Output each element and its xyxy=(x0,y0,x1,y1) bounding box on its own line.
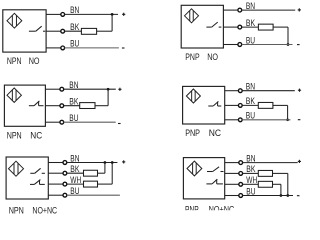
wire BU D5 to supply xyxy=(67,194,120,196)
svg-text:BN: BN xyxy=(246,153,255,163)
svg-text:NO+NC: NO+NC xyxy=(32,206,57,216)
wire WH D5 to load xyxy=(67,183,84,185)
proximity symbol U3 xyxy=(7,88,21,102)
terminal BK D3 xyxy=(60,104,64,108)
svg-text:BK: BK xyxy=(70,164,80,174)
plus terminal D1 xyxy=(122,13,125,16)
sensor body U4 xyxy=(183,86,225,124)
diagram D1 NPN NO xyxy=(3,5,126,66)
wire BN D6 to supply xyxy=(243,162,298,164)
junction D3 xyxy=(107,88,110,91)
terminal BK D2 xyxy=(238,25,242,29)
terminal WH D5 xyxy=(63,182,67,186)
wire load D3 to junction xyxy=(95,105,108,107)
diagram D6 PNP NO+NC xyxy=(183,153,301,214)
wire BN D1 to supply xyxy=(65,13,118,15)
wire BN D4 to supply xyxy=(242,90,295,92)
minus terminal D2 xyxy=(297,44,300,46)
wire BU D6 to supply xyxy=(243,195,293,197)
load resistor D6 a xyxy=(258,170,272,176)
terminal BN D2 xyxy=(238,8,242,12)
terminal BN D6 xyxy=(239,161,243,165)
load resistor D6 b xyxy=(258,181,272,187)
svg-text:PNP: PNP xyxy=(185,128,200,138)
wire BK D2 to load xyxy=(242,26,259,28)
svg-text:NPN: NPN xyxy=(7,130,22,140)
svg-text:BU: BU xyxy=(246,111,255,121)
NO contact S6a xyxy=(207,167,224,172)
load resistor D5 a xyxy=(84,170,98,176)
svg-text:NPN: NPN xyxy=(9,206,24,216)
NC contact S3 xyxy=(29,101,44,106)
svg-text:BU: BU xyxy=(70,39,79,49)
terminal BU D6 xyxy=(239,194,243,198)
plus terminal D3 xyxy=(118,88,121,91)
svg-text:PNP: PNP xyxy=(185,205,199,215)
sensor body U2 xyxy=(181,5,223,48)
load resistor D4 xyxy=(258,102,273,108)
wire BN D3 to supply xyxy=(64,88,116,90)
terminal WH D6 xyxy=(239,182,243,186)
junction D6 a xyxy=(286,194,289,197)
sensor body U1 xyxy=(3,10,46,52)
junction D5 a xyxy=(104,161,107,164)
terminal BN D1 xyxy=(61,13,65,17)
NC contact S4 xyxy=(208,101,221,106)
wire BU D3 to supply xyxy=(64,121,116,123)
plus terminal D2 xyxy=(298,8,301,11)
wire BU D2 to supply xyxy=(242,44,293,46)
minus terminal D3 xyxy=(118,123,121,125)
terminal BU D4 xyxy=(238,118,242,122)
wire load D5 b to junction xyxy=(98,183,113,185)
svg-text:WH: WH xyxy=(70,175,81,185)
svg-text:BN: BN xyxy=(70,153,79,163)
wire BU D4 to supply xyxy=(242,119,290,121)
NC contact S6b xyxy=(206,179,223,184)
svg-text:NO: NO xyxy=(207,52,218,62)
diagram D4 PNP NC xyxy=(183,82,302,139)
minus terminal D6 xyxy=(297,195,300,197)
wire BU U1 to terminal xyxy=(46,47,61,49)
terminal BK D1 xyxy=(61,29,65,33)
load resistor D2 xyxy=(258,24,273,30)
wire BN D5 to supply xyxy=(67,162,118,164)
wire BK U6 to terminal xyxy=(225,172,239,174)
svg-text:BK: BK xyxy=(246,164,256,174)
wire load D6 b to junction xyxy=(273,183,281,185)
diagram D5 NPN NO+NC xyxy=(6,153,125,215)
svg-text:NC: NC xyxy=(209,128,222,138)
wire BN U2 to terminal xyxy=(223,9,238,11)
plus terminal D4 xyxy=(298,89,301,92)
wire WH U5 to terminal xyxy=(48,183,63,185)
svg-text:PNP: PNP xyxy=(185,52,199,62)
wire BN U4 to terminal xyxy=(225,90,239,92)
wire load D5 a to junction xyxy=(98,172,105,174)
terminal BN D4 xyxy=(238,89,242,93)
terminal BU D5 xyxy=(63,193,67,197)
wire load D1 to junction xyxy=(97,30,113,32)
wire BN U1 to terminal xyxy=(46,13,61,15)
terminal BK D6 xyxy=(239,172,243,176)
terminal BN D5 xyxy=(63,161,67,165)
wire BU U5 to terminal xyxy=(48,194,63,196)
svg-text:NPN: NPN xyxy=(7,56,22,66)
wire BN D2 to supply xyxy=(242,9,296,11)
wire BN U3 to terminal xyxy=(45,88,60,90)
terminal BU D2 xyxy=(238,43,242,47)
junction D6 b xyxy=(280,194,283,197)
wire BK U3 to terminal xyxy=(45,105,60,107)
terminal BK D4 xyxy=(238,104,242,108)
terminal BK D5 xyxy=(63,171,67,175)
wire BU U3 to terminal xyxy=(45,121,60,123)
wire BU U2 to terminal xyxy=(223,44,238,46)
plus terminal D6 xyxy=(298,160,301,163)
NC contact S5b xyxy=(30,180,45,185)
proximity symbol U5 xyxy=(9,161,24,176)
NO contact S1 xyxy=(29,26,45,31)
terminal BU D1 xyxy=(61,46,65,50)
svg-text:BK: BK xyxy=(246,18,256,28)
load resistor D1 xyxy=(81,28,96,34)
caption PNP D6 clipped xyxy=(185,205,234,215)
diagram D2 PNP NO xyxy=(181,1,301,62)
wire BU U4 to terminal xyxy=(225,119,239,121)
svg-text:BU: BU xyxy=(246,35,255,45)
wire WH D6 to load xyxy=(243,183,259,185)
minus terminal D1 xyxy=(122,47,125,49)
junction D5 b xyxy=(111,161,114,164)
sensor body U6 xyxy=(183,158,224,199)
proximity symbol U4 xyxy=(186,89,200,103)
svg-text:BN: BN xyxy=(69,80,78,90)
svg-text:BU: BU xyxy=(246,186,255,196)
junction D2 xyxy=(287,43,290,46)
wire load D4 to junction xyxy=(273,104,288,106)
wire BK U1 to terminal xyxy=(46,30,61,32)
junction D1 xyxy=(111,13,114,16)
wire BK D3 to load xyxy=(64,105,80,107)
svg-text:BN: BN xyxy=(246,82,255,92)
sensor body U5 xyxy=(6,157,48,199)
svg-text:NC: NC xyxy=(30,130,42,140)
diagram D3 NPN NC xyxy=(4,80,121,140)
terminal BU D3 xyxy=(60,120,64,124)
terminal BN D3 xyxy=(60,87,64,91)
wire BK D1 to load xyxy=(65,30,82,32)
wire BK D4 to load xyxy=(242,104,258,106)
wire BK D6 to load xyxy=(243,172,259,174)
svg-text:NO+NC: NO+NC xyxy=(209,205,235,215)
svg-text:BK: BK xyxy=(246,96,256,106)
wire BK U2 to terminal xyxy=(223,26,238,28)
proximity symbol U6 xyxy=(187,161,202,176)
svg-text:BN: BN xyxy=(246,1,255,11)
wire load D6 a to junction xyxy=(273,172,288,174)
svg-text:BU: BU xyxy=(70,186,79,196)
svg-text:BK: BK xyxy=(70,22,80,32)
svg-text:BU: BU xyxy=(69,113,78,123)
wire WH U6 to terminal xyxy=(225,183,239,185)
minus terminal D4 xyxy=(298,119,301,121)
plus terminal D5 xyxy=(122,160,125,163)
load resistor D5 b xyxy=(84,181,98,187)
proximity symbol U1 xyxy=(7,13,22,28)
junction D4 xyxy=(286,118,289,121)
svg-text:WH: WH xyxy=(246,175,257,185)
wire BU D1 to supply xyxy=(65,47,119,49)
proximity symbol U2 xyxy=(185,9,199,23)
wire load D2 to junction xyxy=(273,26,288,28)
sensor body U3 xyxy=(4,85,45,126)
svg-text:NO: NO xyxy=(29,56,40,66)
svg-text:BK: BK xyxy=(69,97,79,107)
wire BU U6 to terminal xyxy=(225,195,239,197)
wire BK D5 to load xyxy=(67,172,84,174)
NO contact S2 xyxy=(206,22,221,27)
wire BK U4 to terminal xyxy=(225,104,239,106)
wire BN U5 to terminal xyxy=(48,162,63,164)
wire BK U5 to terminal xyxy=(48,172,63,174)
svg-text:BN: BN xyxy=(70,5,79,15)
load resistor D3 xyxy=(80,103,95,109)
wire BN U6 to terminal xyxy=(225,162,239,164)
NO contact S5a xyxy=(30,168,45,173)
